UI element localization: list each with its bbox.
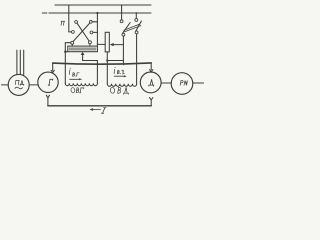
contact circle TL of switch П [75, 21, 78, 24]
wire: stub MR to bus2 drop [93, 31, 98, 33]
switch blade D2 (TL to PR) [77, 23, 89, 41]
wire: Л left down to armature wire [122, 36, 124, 65]
label I [101, 108, 106, 114]
current arrow I [93, 109, 101, 111]
working machine РМ circle [171, 73, 193, 95]
wire: Л right down to ОВД right end [136, 34, 138, 84]
winding ОВД [107, 84, 136, 87]
label РМ [180, 80, 187, 85]
contact circle PL on potentiometer [71, 41, 74, 44]
wire: ОВГ right leg [96, 61, 98, 84]
wire: bus2 drop to potentiometer right end [96, 13, 98, 46]
Л left blade [123, 23, 131, 34]
arrow under iв.г [70, 78, 80, 80]
motor Д circle [140, 72, 161, 93]
Л right bottom circle [135, 31, 138, 34]
wire: stub dot to pot left end [65, 51, 68, 53]
R2 wiper arrow [110, 43, 114, 46]
contact circle MR of switch П [90, 31, 93, 34]
armature main wire (thick) [53, 63, 152, 64]
label Г [48, 79, 53, 85]
shaft Д to РМ [161, 82, 171, 84]
Г top lead [52, 63, 54, 70]
pot wiper arrow [81, 52, 85, 55]
wire: stub right of РМ [193, 82, 204, 84]
label ПД [15, 80, 24, 85]
wire: ОВГ left leg [65, 43, 70, 84]
drive motor ПД circle [8, 74, 29, 95]
Д bottom lead [150, 100, 152, 106]
resistive element bar inside potentiometer [69, 47, 96, 50]
contact circle TR of switch П [89, 20, 92, 23]
wire: bus 2 dash [42, 12, 47, 14]
contactor Л right pole: feed from bus2 [135, 13, 137, 19]
winding ОВГ [65, 83, 97, 85]
generator Г circle [38, 72, 58, 92]
contactor Л left pole: feed from bus1 [121, 5, 123, 20]
label iв.г [69, 68, 79, 77]
Л right blade [136, 21, 142, 31]
wire: rheostat chain to Л left [107, 60, 123, 62]
rheostat R2 (field of Д) [105, 32, 109, 52]
label ОВД [110, 87, 129, 94]
Г bottom lead [46, 95, 49, 98]
tilde inside ПД [15, 87, 23, 89]
label П [61, 21, 65, 25]
shaft ПД to Г [29, 84, 38, 86]
label Д [149, 79, 154, 86]
contact circle ML of switch П [72, 31, 75, 34]
wire: stub left of ПД [2, 84, 9, 86]
junction dot on bus 2 [96, 12, 98, 14]
Л left bottom circle [122, 33, 125, 36]
Л right top circle [135, 19, 138, 22]
label ОВГ [71, 87, 84, 93]
three phase supply lines [16, 50, 18, 75]
junction dot W1 / rheostat chain [106, 59, 108, 61]
potentiometer R1 rect [68, 46, 98, 52]
wire: bus 2 [49, 12, 151, 14]
wire: wiper to ОВГ right leg [83, 60, 98, 62]
junction dot pot left [64, 51, 66, 53]
Л linkage double line [124, 24, 140, 30]
bottom return wire [48, 105, 151, 107]
Д top lead [150, 63, 152, 70]
wire: stub bus2 drop to rheostat R2 left [97, 43, 105, 45]
label iв.д [114, 67, 124, 74]
Л left top circle [120, 20, 123, 23]
wire: rheostat chain drop to ОВД left [106, 52, 108, 84]
wire: bus 1 [55, 4, 151, 6]
arrow under iв.д [114, 75, 124, 77]
wire: stub TR to bus2 drop [92, 21, 97, 23]
switch blade D1 (TR to PL) [73, 23, 90, 41]
wire: feed from bus1 to switch П [69, 5, 72, 32]
contact circle PR on potentiometer [88, 41, 91, 44]
